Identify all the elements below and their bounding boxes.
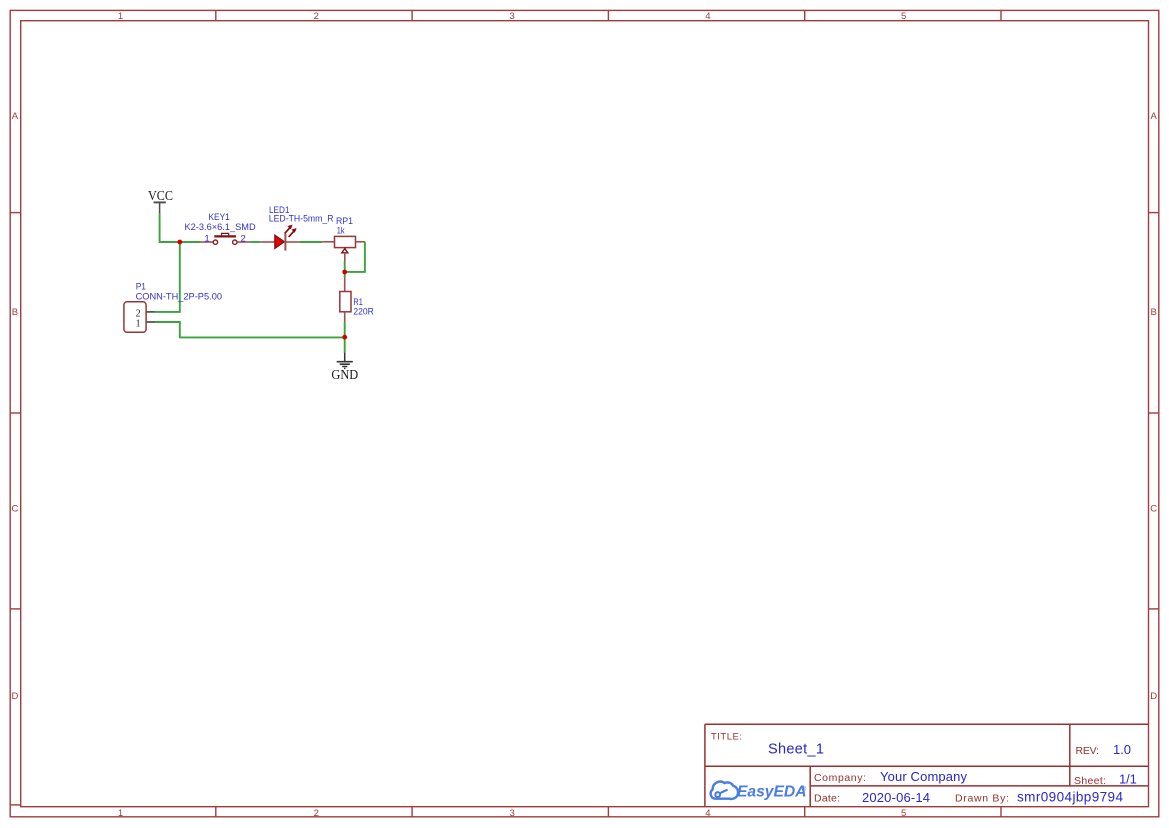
- actuator bar: [214, 235, 236, 237]
- bottom stub: [344, 312, 346, 322]
- VCC power symbol: [154, 202, 166, 213]
- svg-text:D: D: [11, 691, 18, 702]
- svg-text:K2-3.6×6.1_SMD: K2-3.6×6.1_SMD: [185, 222, 256, 233]
- wire rail down to P1 pin2: [154, 242, 180, 312]
- pin 1 stub: [200, 241, 213, 243]
- svg-text:1: 1: [136, 318, 141, 329]
- pin 2 stub: [237, 241, 249, 243]
- EasyEDA logo: [711, 782, 807, 801]
- pin 2 contact: [233, 240, 237, 244]
- title block: [705, 724, 1149, 807]
- svg-text:A: A: [12, 111, 19, 122]
- svg-text:Date:: Date:: [814, 793, 840, 805]
- potentiometer RP1: [322, 236, 365, 261]
- emission arrow 2: [289, 231, 294, 237]
- svg-text:A: A: [1151, 111, 1158, 122]
- svg-text:220R: 220R: [353, 306, 373, 317]
- cathode stub: [285, 241, 299, 243]
- svg-text:1: 1: [118, 808, 123, 819]
- svg-text:®: ®: [802, 785, 807, 793]
- resistor R1: [340, 278, 351, 322]
- switch KEY1: [200, 233, 249, 244]
- svg-text:REV:: REV:: [1076, 745, 1100, 757]
- svg-text:5: 5: [901, 808, 906, 819]
- svg-text:1k: 1k: [337, 225, 345, 236]
- svg-text:1.0: 1.0: [1113, 742, 1131, 757]
- wire RP1 wiper down: [344, 261, 346, 278]
- junction node below RP1: [342, 270, 347, 275]
- svg-text:C: C: [11, 503, 18, 514]
- svg-text:B: B: [1151, 307, 1157, 318]
- svg-text:B: B: [12, 307, 18, 318]
- wire KEY1 to LED: [249, 241, 260, 243]
- svg-text:1: 1: [118, 11, 123, 22]
- svg-text:3: 3: [509, 808, 514, 819]
- svg-text:C: C: [1150, 503, 1157, 514]
- pin 1 contact: [213, 240, 217, 244]
- wire RP1 right to feedback: [345, 242, 365, 272]
- pin 1 stub: [146, 321, 155, 323]
- wiper arrow: [344, 248, 346, 250]
- svg-text:GND: GND: [331, 367, 358, 382]
- pin 2 stub: [146, 311, 155, 313]
- left stub: [322, 241, 334, 243]
- junction node at VCC rail: [177, 240, 182, 245]
- triangle: [275, 235, 285, 248]
- svg-text:5: 5: [901, 11, 906, 22]
- svg-text:Sheet_1: Sheet_1: [768, 742, 824, 758]
- button bump: [222, 233, 229, 236]
- wire VCC stem to rail: [160, 213, 201, 242]
- ground GND: [337, 353, 353, 369]
- svg-text:2: 2: [314, 11, 319, 22]
- cathode bar: [284, 234, 286, 251]
- body: [335, 236, 356, 247]
- svg-text:3: 3: [509, 11, 514, 22]
- svg-text:2020-06-14: 2020-06-14: [862, 790, 930, 805]
- junction node at GND rail: [342, 335, 347, 340]
- svg-text:Company:: Company:: [814, 772, 866, 784]
- svg-text:4: 4: [705, 11, 710, 22]
- svg-text:2: 2: [314, 808, 319, 819]
- svg-text:D: D: [1150, 691, 1157, 702]
- svg-text:EasyEDA: EasyEDA: [737, 783, 807, 800]
- svg-text:smr0904jbp9794: smr0904jbp9794: [1017, 789, 1123, 804]
- svg-text:VCC: VCC: [148, 188, 173, 203]
- svg-text:Drawn By:: Drawn By:: [955, 793, 1009, 805]
- svg-text:Your Company: Your Company: [880, 769, 968, 784]
- wire LED to RP1: [299, 241, 322, 243]
- svg-text:2: 2: [241, 234, 246, 245]
- right stub: [356, 241, 365, 243]
- LED LED1: [260, 225, 299, 251]
- svg-text:TITLE:: TITLE:: [711, 731, 742, 742]
- svg-text:LED-TH-5mm_R: LED-TH-5mm_R: [269, 213, 334, 224]
- svg-text:Sheet:: Sheet:: [1074, 775, 1106, 787]
- wire R1 bottom to GND node: [344, 322, 346, 353]
- top stub: [344, 278, 346, 292]
- svg-text:1/1: 1/1: [1119, 771, 1137, 786]
- wire P1 pin1 to GND node: [154, 322, 344, 337]
- svg-text:1: 1: [204, 234, 209, 245]
- svg-text:CONN-TH_2P-P5.00: CONN-TH_2P-P5.00: [136, 292, 222, 303]
- emission arrow 1: [285, 228, 290, 234]
- svg-text:4: 4: [705, 808, 710, 819]
- wiper stub: [344, 253, 346, 262]
- connector P1: [124, 302, 155, 333]
- anode stub: [260, 241, 274, 243]
- body: [340, 292, 351, 312]
